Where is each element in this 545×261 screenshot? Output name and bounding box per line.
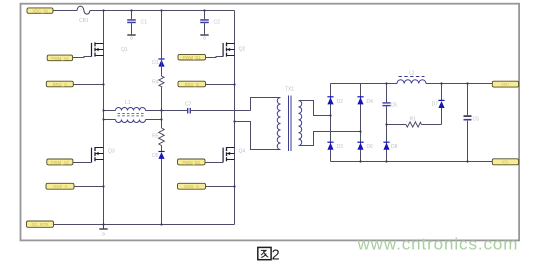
svg-text:C1: C1	[141, 20, 148, 26]
transistor Q1 (NMOS)	[92, 42, 128, 56]
svg-text:D1: D1	[152, 60, 159, 66]
wire: snubber node horizontal	[387, 124, 442, 126]
diode D4	[357, 97, 373, 105]
svg-text:TX1: TX1	[285, 87, 294, 93]
svg-text:L2: L2	[409, 71, 415, 77]
wire: gate lead Q4	[205, 162, 223, 164]
net label SRC_A (below Q3)	[46, 183, 74, 189]
resistor R4	[152, 76, 164, 88]
wire: SRC_B lead	[206, 186, 235, 188]
net label PWM3 (gate Q3)	[47, 159, 73, 165]
transistor Q3 (NMOS)	[92, 147, 115, 162]
wire: chain R4 to node	[161, 88, 163, 120]
core	[289, 96, 292, 152]
wire: secondary bottom lead	[299, 132, 361, 146]
svg-text:Q1: Q1	[121, 47, 128, 53]
diode D3	[327, 142, 343, 150]
svg-text:C5: C5	[473, 117, 480, 123]
ground 0 under C1	[127, 35, 135, 41]
ground 0 (bottom rail)	[99, 225, 107, 237]
svg-text:VO-: VO-	[502, 160, 510, 165]
wire: rectifier top rail	[331, 83, 493, 85]
wire: secondary top lead	[299, 101, 331, 116]
wire: SRC_A lead	[74, 186, 104, 188]
net label PWM4 (gate Q4)	[178, 159, 206, 165]
svg-text:Q4: Q4	[239, 149, 246, 155]
net label node B	[178, 81, 206, 87]
svg-text:D6: D6	[367, 144, 374, 150]
svg-text:L1: L1	[125, 100, 131, 106]
wire: chain node to R5 / R5 to D5	[161, 120, 163, 152]
fuse CB1	[77, 6, 90, 24]
ground 0 under C2	[200, 35, 208, 41]
svg-text:BRG_B: BRG_B	[185, 82, 199, 87]
wire: clamp chain vertical (top rail to R4)	[161, 11, 163, 77]
net label SRC_B (below Q4)	[178, 183, 206, 189]
svg-text:D4: D4	[367, 99, 374, 105]
svg-text:PWM_B2: PWM_B2	[182, 160, 200, 165]
svg-text:Q2: Q2	[239, 47, 246, 53]
svg-text:2: 2	[272, 248, 280, 261]
caption 图2 (figure 2, CJK glyph drawn as vectors)	[258, 247, 271, 259]
transistor Q2 (NMOS)	[223, 42, 245, 56]
resistor R5	[152, 128, 164, 146]
svg-text:C7: C7	[185, 102, 192, 108]
svg-text:VO+: VO+	[501, 82, 510, 87]
net label VOUT+ (right port top)	[492, 81, 518, 87]
wire: rectifier bottom rail	[331, 161, 493, 163]
wire: top rail (fuse to right bridge leg)	[90, 10, 235, 12]
wire: node B lead	[206, 84, 235, 86]
svg-text:D8: D8	[391, 144, 398, 150]
svg-text:CB1: CB1	[79, 18, 89, 24]
capacitor C1	[127, 11, 147, 35]
coupled inductor L1	[104, 100, 162, 123]
svg-text:PWM_B1: PWM_B1	[183, 55, 201, 60]
secondary winding	[299, 101, 302, 146]
svg-text:BRG_A: BRG_A	[53, 82, 67, 87]
svg-text:R1: R1	[410, 117, 417, 123]
svg-text:VDC_IN: VDC_IN	[32, 8, 47, 13]
wire: gate lead Q1	[73, 57, 92, 58]
wire: bottom rail	[54, 224, 235, 226]
diode D2	[327, 97, 343, 105]
capacitor C5 (output)	[464, 84, 480, 162]
transformer TX1	[277, 87, 301, 152]
wire: gate lead Q3	[73, 162, 91, 164]
net label VIN+ (top-left port)	[27, 8, 53, 13]
net label node A	[46, 81, 73, 87]
svg-text:R5: R5	[152, 134, 159, 140]
wire: right bridge leg (node vertical)	[234, 11, 236, 225]
svg-text:D2: D2	[337, 99, 344, 105]
diode D5 (clamp bottom)	[152, 152, 165, 160]
svg-text:www.cntronics.com: www.cntronics.com	[357, 234, 519, 253]
diode D8	[383, 142, 397, 150]
net label PWM1 (gate Q1)	[47, 55, 72, 61]
resistor R1 (snubber)	[406, 117, 422, 128]
svg-text:D3: D3	[337, 144, 344, 150]
wire: rectifier column 2	[360, 84, 362, 162]
svg-text:ISNS_A: ISNS_A	[53, 184, 68, 189]
wire: left bridge leg (node vertical)	[103, 11, 105, 225]
primary winding	[277, 98, 280, 150]
capacitor C6 (snubber)	[382, 84, 397, 162]
net label PWM2 (gate Q2)	[178, 54, 206, 60]
wire: VIN+ label to fuse	[53, 10, 77, 12]
capacitor C7 (series blocking)	[162, 102, 251, 114]
net label VOUT- (right port bottom)	[492, 159, 518, 165]
diode D7 (snubber)	[432, 84, 445, 125]
svg-text:D5: D5	[152, 153, 159, 159]
svg-text:PWM_A2: PWM_A2	[51, 160, 69, 165]
diode D1 (clamp top)	[152, 59, 165, 67]
inductor L2 (output, with core)	[397, 71, 426, 84]
svg-text:ISNS_B: ISNS_B	[184, 184, 199, 189]
wire: rectifier column 1	[330, 84, 332, 162]
svg-text:C2: C2	[214, 20, 221, 26]
wire: primary bottom lead (node B to transformer)	[235, 122, 281, 150]
svg-text:C6: C6	[391, 103, 398, 109]
capacitor C2	[200, 11, 220, 35]
wire: node A lead	[73, 84, 103, 86]
transistor Q4 (NMOS)	[223, 147, 245, 162]
svg-text:PWM_A1: PWM_A1	[51, 56, 69, 61]
svg-text:D7: D7	[432, 102, 439, 108]
wire: gate lead Q2	[206, 57, 223, 58]
svg-text:DC_RTN: DC_RTN	[32, 222, 49, 227]
wire: chain D5 to bottom rail	[161, 159, 163, 225]
svg-text:Q3: Q3	[108, 149, 115, 155]
svg-text:R4: R4	[152, 80, 159, 86]
wire: primary top lead (C7 to transformer)	[251, 98, 281, 111]
net label VIN- (bottom-left port)	[27, 221, 54, 227]
diode D6	[357, 142, 373, 150]
